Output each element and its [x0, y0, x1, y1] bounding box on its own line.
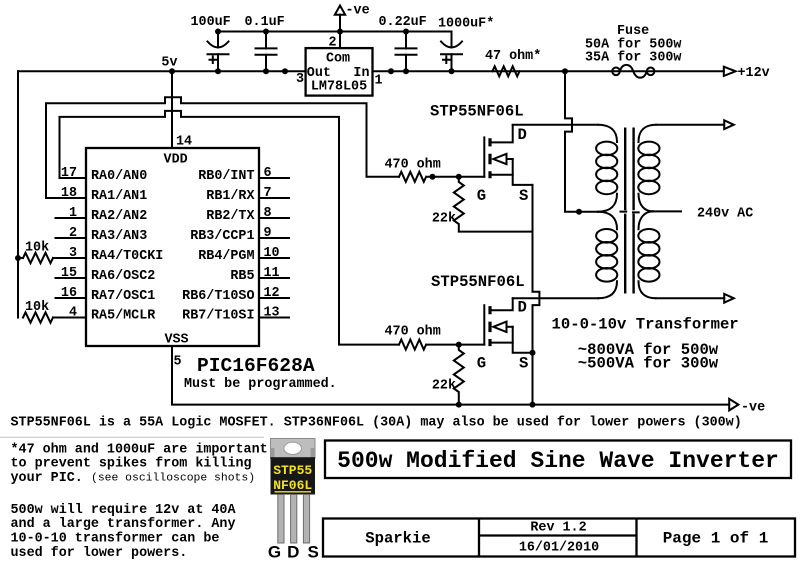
regulator U2 LM78L05 [296, 35, 383, 95]
svg-text:1: 1 [375, 74, 383, 89]
svg-text:RA7/OSC1: RA7/OSC1 [91, 289, 155, 304]
ground symbol -ve (top) [335, 4, 370, 49]
capacitor C1 100uF [191, 15, 231, 74]
svg-text:Rev 1.2: Rev 1.2 [530, 521, 586, 536]
svg-text:G: G [477, 187, 486, 205]
svg-text:RA3/AN3: RA3/AN3 [91, 229, 147, 244]
fuse F1 [585, 24, 681, 77]
svg-text:STP55NF06L is a 55A Logic MOSF: STP55NF06L is a 55A Logic MOSFET. STP36N… [11, 416, 742, 431]
node AC out top [656, 120, 734, 129]
svg-text:-ve: -ve [346, 4, 370, 19]
svg-text:RB7/T10SI: RB7/T10SI [182, 309, 254, 324]
svg-text:22k: 22k [432, 212, 456, 227]
svg-text:your PIC.: your PIC. [11, 471, 83, 486]
svg-text:RB0/INT: RB0/INT [198, 169, 254, 184]
svg-text:14: 14 [176, 135, 192, 150]
wire VDD [171, 71, 173, 148]
svg-text:D: D [287, 543, 299, 562]
node 5v [161, 56, 177, 75]
wire RA0 to lower gate drive [60, 111, 400, 345]
svg-text:RB1/RX: RB1/RX [206, 189, 255, 204]
svg-text:D: D [518, 126, 527, 144]
svg-text:22k: 22k [432, 379, 456, 394]
svg-text:Sparkie: Sparkie [365, 530, 431, 548]
svg-text:PIC16F628A: PIC16F628A [197, 355, 315, 377]
svg-text:+12v: +12v [738, 66, 770, 81]
svg-text:240v AC: 240v AC [697, 207, 753, 222]
wire left 5v vertical [17, 71, 19, 317]
pin stubs pic right [259, 178, 289, 318]
svg-text:500w Modified Sine Wave Invert: 500w Modified Sine Wave Inverter [337, 448, 779, 474]
resistor R6 22k [432, 177, 533, 232]
svg-text:Com: Com [326, 52, 350, 67]
svg-text:RA1/AN1: RA1/AN1 [91, 189, 147, 204]
svg-text:Page 1 of 1: Page 1 of 1 [663, 530, 769, 548]
resistor R4 470 ohm [385, 325, 485, 350]
svg-text:RB5: RB5 [230, 269, 254, 284]
node 240v AC [653, 207, 753, 222]
wire -ve rail [172, 346, 729, 405]
svg-text:STP55: STP55 [273, 463, 312, 478]
svg-text:Must be programmed.: Must be programmed. [184, 377, 337, 392]
svg-text:35A for 300w: 35A for 300w [585, 50, 681, 65]
node -ve [729, 399, 765, 416]
note 47 ohm paragraph [11, 442, 268, 486]
svg-text:VDD: VDD [164, 152, 188, 167]
svg-text:RB4/PGM: RB4/PGM [198, 249, 254, 264]
svg-text:2: 2 [328, 35, 336, 50]
node +12v [724, 66, 770, 81]
wire RA1 to upper gate drive [46, 97, 399, 198]
svg-text:S: S [519, 187, 528, 205]
node AC out bottom [656, 294, 734, 303]
capacitor C2 0.1uF [245, 15, 285, 74]
svg-text:G: G [268, 543, 281, 562]
label transformer [552, 316, 739, 373]
svg-text:*47 ohm and 1000uF are importa: *47 ohm and 1000uF are important [11, 442, 268, 457]
resistor R3 470 ohm [385, 157, 485, 182]
svg-text:16/01/2010: 16/01/2010 [519, 541, 599, 556]
svg-text:-ve: -ve [741, 401, 765, 416]
svg-text:47 ohm*: 47 ohm* [485, 49, 541, 64]
svg-text:470 ohm: 470 ohm [385, 325, 441, 340]
svg-text:RA4/T0CKI: RA4/T0CKI [91, 249, 163, 264]
svg-text:used for lower powers.: used for lower powers. [11, 546, 188, 561]
note 500w paragraph [11, 503, 237, 561]
resistor R1 10k [15, 241, 86, 264]
svg-text:1000uF*: 1000uF* [438, 17, 494, 32]
svg-text:RB3/CCP1: RB3/CCP1 [190, 229, 254, 244]
svg-text:0.1uF: 0.1uF [245, 15, 285, 30]
svg-text:G: G [477, 355, 486, 373]
pic U1 PIC16F628A [61, 135, 337, 392]
wire Q1 drain to transformer top [513, 124, 598, 126]
svg-text:5: 5 [174, 355, 182, 370]
to-220 package [268, 439, 319, 562]
wire top capacitor bus [218, 31, 452, 33]
wire pin18 [46, 197, 86, 199]
wire center tap [565, 71, 598, 214]
svg-text:RA6/OSC2: RA6/OSC2 [91, 269, 155, 284]
svg-text:STP55NF06L: STP55NF06L [431, 273, 525, 291]
svg-text:S: S [308, 543, 319, 562]
svg-text:5v: 5v [161, 56, 177, 71]
svg-text:and a large transformer. Any: and a large transformer. Any [11, 517, 236, 532]
svg-text:STP55NF06L: STP55NF06L [430, 103, 524, 121]
wire Q2 drain to transformer bottom [513, 297, 598, 299]
capacitor C3 0.22uF [379, 15, 427, 74]
svg-text:LM78L05: LM78L05 [311, 79, 367, 94]
svg-text:VSS: VSS [164, 333, 188, 348]
resistor R2 10k [23, 300, 86, 323]
svg-text:NF06L: NF06L [273, 478, 312, 493]
svg-text:RB2/TX: RB2/TX [206, 209, 255, 224]
svg-text:0.22uF: 0.22uF [379, 15, 427, 30]
transistor Q2 STP55NF06L [431, 273, 533, 373]
svg-text:RA2/AN2: RA2/AN2 [91, 209, 147, 224]
svg-text:RB6/T10SO: RB6/T10SO [182, 289, 254, 304]
svg-text:~500VA for 300w: ~500VA for 300w [578, 355, 719, 373]
svg-text:(see oscilloscope shots): (see oscilloscope shots) [91, 472, 255, 484]
resistor R7 22k [432, 345, 464, 408]
svg-text:10-0-10 transformer can be: 10-0-10 transformer can be [11, 532, 220, 547]
svg-text:S: S [519, 355, 528, 373]
svg-text:3: 3 [296, 72, 304, 87]
svg-text:RA5/MCLR: RA5/MCLR [91, 309, 156, 324]
faint page line [0, 436, 264, 438]
svg-text:10-0-10v Transformer: 10-0-10v Transformer [552, 316, 739, 334]
transistor Q1 STP55NF06L [430, 103, 533, 205]
wire Q1 source to -ve [530, 185, 540, 408]
transformer T1 [596, 125, 659, 299]
capacitor C4 1000uF [438, 17, 494, 75]
svg-text:RA0/AN0: RA0/AN0 [91, 169, 147, 184]
pin stubs pic left [56, 218, 87, 298]
svg-text:470 ohm: 470 ohm [385, 157, 441, 172]
svg-text:to prevent spikes from killing: to prevent spikes from killing [11, 457, 252, 472]
resistor R5 47 ohm [485, 49, 541, 76]
svg-text:500w will require 12v at 40A: 500w will require 12v at 40A [11, 503, 237, 518]
svg-text:100uF: 100uF [191, 15, 231, 30]
wire pin17 [60, 177, 87, 179]
wire +12v rail [18, 68, 724, 74]
svg-text:D: D [518, 299, 527, 317]
title block [323, 441, 795, 557]
